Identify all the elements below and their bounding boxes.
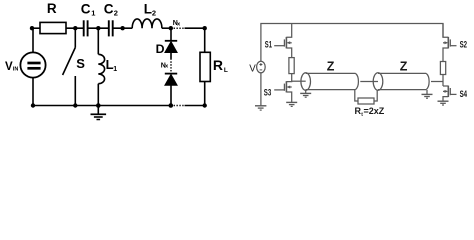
junction dots left circuit — [30, 26, 207, 108]
label node Nx mid — [161, 62, 169, 69]
transmission line Z1 — [301, 73, 359, 91]
inductor L1 branch top stub — [97, 28, 99, 54]
svg-text:D: D — [156, 42, 165, 56]
svg-text:1: 1 — [113, 66, 117, 73]
svg-text:2: 2 — [152, 8, 156, 17]
svg-text:L: L — [224, 67, 228, 74]
label S1 — [265, 40, 273, 51]
svg-text:C: C — [81, 2, 91, 17]
wire source top — [32, 28, 34, 52]
wire dashed node Nx mid — [170, 59, 172, 73]
wire rect to node right — [442, 75, 444, 87]
resistor Rt — [355, 90, 377, 104]
resistor below S2 — [440, 62, 445, 75]
diode branch top stub — [170, 28, 172, 41]
transistor S1 — [274, 24, 292, 58]
inductor L2 — [132, 19, 162, 28]
wire between diodes — [170, 53, 172, 59]
svg-text:=2xZ: =2xZ — [364, 106, 385, 116]
label C1 — [81, 2, 96, 18]
label S — [76, 56, 85, 71]
label RL — [213, 57, 228, 74]
wire source to ground — [260, 73, 262, 106]
wire dashed bottom — [174, 105, 185, 107]
svg-text:Z: Z — [400, 59, 408, 73]
wire TL1 to TL2 — [360, 81, 378, 83]
svg-text:L: L — [144, 2, 152, 17]
switch branch bottom stub — [74, 76, 76, 106]
svg-text:R: R — [47, 1, 57, 16]
label V source polarity — [259, 63, 262, 70]
switch branch top stub — [74, 28, 76, 47]
svg-text:S1: S1 — [265, 40, 273, 51]
label S3 — [264, 87, 272, 98]
ground under TL1 cap — [300, 90, 311, 98]
ground under TL2 cap — [422, 90, 433, 98]
svg-text:S2: S2 — [460, 40, 468, 51]
wire diode branch bottom — [170, 85, 172, 105]
svg-text:C: C — [104, 2, 114, 17]
wire rect to node — [291, 74, 293, 82]
label L1 — [106, 57, 118, 73]
resistor RL — [200, 52, 210, 81]
source V — [257, 61, 266, 73]
ground under S3 — [286, 102, 297, 106]
wire C1 to L1 node — [88, 27, 109, 29]
transistor S2 — [443, 24, 457, 62]
svg-text:R: R — [213, 57, 223, 73]
capacitor C1 — [84, 20, 88, 36]
svg-text:x: x — [165, 64, 169, 70]
transistor S3 — [274, 81, 292, 102]
source Vin — [20, 52, 45, 77]
wire top rail — [261, 24, 443, 62]
label node Nx top — [173, 20, 181, 27]
label Z1 — [327, 59, 335, 73]
svg-text:Z: Z — [327, 59, 335, 73]
ground under S4 — [438, 101, 449, 105]
ground — [91, 106, 107, 120]
svg-text:V: V — [249, 63, 256, 74]
wire TL2 to right leg — [431, 81, 443, 83]
svg-text:x: x — [177, 21, 181, 27]
label S2 — [460, 40, 468, 51]
transistor S4 — [443, 86, 457, 101]
svg-text:S4: S4 — [460, 89, 468, 100]
svg-text:IN: IN — [13, 67, 19, 73]
label V — [249, 63, 256, 74]
label R — [47, 1, 57, 16]
wire node to TL1 — [292, 80, 306, 82]
resistor below S1 — [289, 58, 294, 74]
wire L2 to node Nx — [162, 27, 171, 29]
svg-text:S3: S3 — [264, 87, 272, 98]
label Rt=2xZ — [355, 106, 385, 118]
inductor L1 branch bottom stub — [97, 84, 99, 106]
label C2 — [104, 2, 118, 18]
switch S blade — [63, 48, 76, 76]
wire C2 to L2 — [113, 27, 133, 29]
inductor L1 — [98, 54, 104, 83]
label Z2 — [400, 59, 408, 73]
svg-text:S: S — [76, 56, 85, 71]
wire bottom main — [33, 105, 171, 107]
resistor RL branch bottom stub — [204, 82, 206, 106]
resistor R — [40, 22, 66, 33]
diode D — [165, 41, 177, 53]
wire R to switch node — [66, 27, 83, 29]
svg-text:1: 1 — [91, 8, 95, 17]
label Vin — [5, 61, 18, 73]
wire top right — [185, 27, 205, 29]
label L2 — [144, 2, 156, 18]
wire source bottom — [32, 78, 34, 106]
label D — [156, 42, 165, 56]
transmission line Z2 — [373, 73, 429, 91]
capacitor C2 — [109, 20, 113, 36]
wire top left — [32, 27, 40, 29]
label S4 — [460, 89, 468, 100]
ground under V — [255, 106, 266, 110]
wire bottom right — [185, 105, 205, 107]
svg-text:V: V — [5, 61, 13, 73]
resistor RL branch top stub — [204, 28, 206, 52]
svg-text:2: 2 — [114, 8, 118, 17]
diode D2 — [165, 74, 177, 86]
wire dashed top — [174, 27, 185, 29]
